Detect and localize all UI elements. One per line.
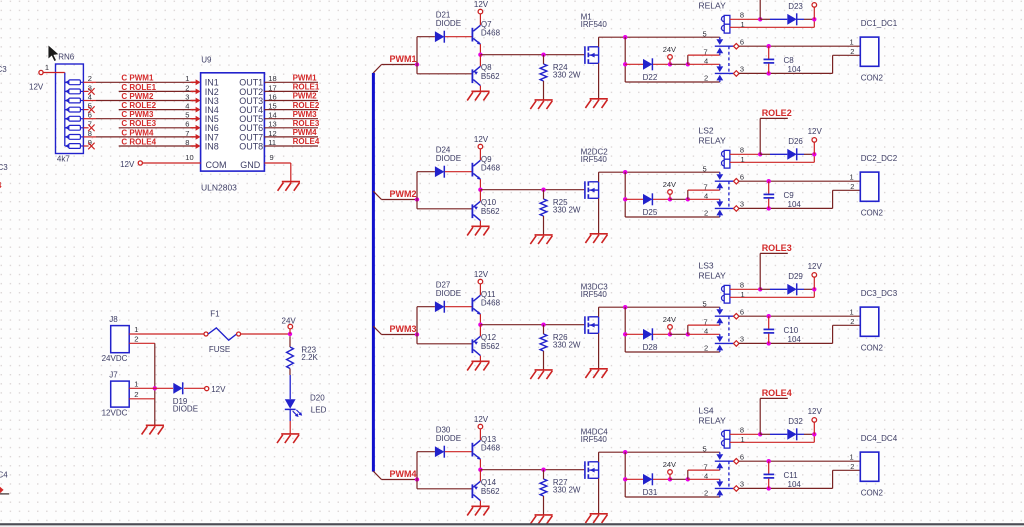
svg-text:Q13: Q13	[481, 435, 497, 444]
power 24V (relay contacts)	[663, 180, 676, 202]
svg-text:24V: 24V	[663, 45, 676, 54]
clipped red label fragment 2	[0, 487, 9, 494]
power 12V (relay coil)	[808, 127, 823, 155]
svg-text:1: 1	[45, 63, 49, 72]
svg-text:12V: 12V	[29, 83, 44, 92]
wire net C ROLE1 (RN6 pin 3 to U9 IN2)	[83, 83, 200, 95]
power 12V (Q13 collector)	[474, 415, 489, 440]
svg-text:5: 5	[703, 299, 707, 308]
svg-text:9: 9	[270, 153, 274, 162]
wire emitter node	[478, 314, 584, 327]
op-amp U9 ULN2803 body	[201, 56, 265, 193]
svg-text:3: 3	[185, 92, 189, 101]
svg-text:ROLE3: ROLE3	[293, 119, 320, 128]
svg-text:Q14: Q14	[481, 478, 497, 487]
svg-text:D468: D468	[481, 164, 501, 173]
svg-text:3: 3	[740, 65, 744, 74]
wire net PWM1 (U9 OUT1)	[264, 74, 318, 84]
svg-text:DIODE: DIODE	[436, 289, 461, 298]
svg-text:8: 8	[185, 138, 189, 147]
svg-text:1: 1	[134, 325, 138, 334]
svg-text:4: 4	[704, 327, 708, 336]
svg-text:RELAY: RELAY	[699, 270, 727, 280]
svg-text:4: 4	[704, 57, 708, 66]
wire drain rail	[599, 450, 720, 462]
svg-text:CON2: CON2	[861, 209, 884, 218]
ground (M3DC3)	[585, 369, 607, 378]
diode D26 (coil flyback)	[760, 137, 816, 160]
svg-text:1: 1	[741, 20, 745, 29]
svg-text:GND: GND	[240, 160, 260, 170]
svg-text:D26: D26	[788, 137, 803, 146]
wire fuse to 24V node	[241, 333, 290, 335]
svg-text:4: 4	[185, 102, 189, 111]
svg-text:FUSE: FUSE	[209, 345, 230, 354]
wire net PWM4 (U9 OUT7)	[264, 128, 318, 138]
relay mechanical link	[728, 46, 730, 73]
svg-text:PWM3: PWM3	[390, 324, 417, 334]
wire coil pin 1	[730, 434, 814, 444]
power 24V (relay contacts)	[663, 45, 676, 67]
svg-text:1: 1	[741, 435, 745, 444]
ground (M2DC2)	[585, 234, 607, 243]
svg-text:8: 8	[740, 426, 744, 435]
svg-text:D468: D468	[481, 29, 501, 38]
wire net C PWM1 (RN6 pin 2 to U9 IN1)	[83, 74, 200, 86]
ground (R26)	[530, 370, 552, 379]
svg-text:4: 4	[88, 92, 92, 101]
power 24V (relay contacts)	[663, 460, 676, 482]
svg-text:1: 1	[741, 290, 745, 299]
svg-text:C4: C4	[0, 470, 8, 479]
wire 24V node to contacts	[670, 55, 720, 66]
svg-text:1: 1	[185, 74, 189, 83]
svg-text:D468: D468	[481, 444, 501, 453]
svg-text:D468: D468	[481, 299, 501, 308]
RN6 pin 1 12V input	[29, 63, 65, 92]
wire net C PWM4 (RN6 pin 8 to U9 IN7)	[83, 128, 200, 140]
wire source to ground	[598, 198, 600, 234]
svg-text:RELAY: RELAY	[699, 0, 727, 10]
svg-text:7: 7	[704, 182, 708, 191]
svg-text:12VDC: 12VDC	[102, 409, 128, 418]
diode D22	[625, 58, 670, 82]
svg-text:D30: D30	[436, 425, 451, 434]
power 12V (relay coil)	[812, 3, 817, 20]
ground (M1)	[585, 99, 607, 108]
svg-text:PWM4: PWM4	[293, 128, 318, 137]
svg-text:PWM3: PWM3	[293, 110, 318, 119]
svg-text:LS4: LS4	[699, 406, 714, 416]
diode D28	[625, 328, 670, 352]
svg-text:1: 1	[850, 37, 854, 46]
wire drain rail	[599, 170, 720, 182]
power 24V (relay contacts)	[663, 315, 676, 337]
wire net ROLE3 (U9 OUT6)	[264, 119, 319, 129]
svg-text:12V: 12V	[120, 160, 135, 169]
svg-text:OUT8: OUT8	[239, 141, 263, 151]
svg-text:B562: B562	[481, 342, 500, 351]
relay contact pole 2	[704, 57, 744, 83]
svg-text:C3: C3	[0, 163, 8, 172]
connector J7 12VDC	[102, 371, 139, 418]
svg-text:2.2K: 2.2K	[301, 353, 318, 362]
ground (M4DC4)	[585, 514, 607, 523]
wire net C ROLE4 (RN6 pin 9 to U9 IN8)	[83, 137, 200, 149]
svg-text:C ROLE1: C ROLE1	[121, 83, 156, 92]
svg-text:2: 2	[704, 74, 708, 83]
wire source to ground	[598, 478, 600, 514]
wire J8.2 down	[129, 343, 155, 425]
wire coil pin 8	[730, 281, 763, 292]
LED D20	[285, 375, 327, 421]
svg-text:24VDC: 24VDC	[102, 354, 128, 363]
svg-text:C9: C9	[784, 191, 795, 200]
ground (J7/J8)	[142, 425, 164, 434]
svg-text:DIODE: DIODE	[173, 405, 198, 414]
svg-text:IN8: IN8	[205, 141, 219, 151]
svg-text:IRF540: IRF540	[581, 290, 608, 299]
svg-text:330 2W: 330 2W	[553, 71, 581, 80]
diode D32 (coil flyback)	[760, 417, 816, 440]
wire drain drop	[623, 37, 720, 82]
wire net C ROLE2 (RN6 pin 5 to U9 IN4)	[83, 101, 200, 113]
svg-text:C8: C8	[784, 56, 795, 65]
wire net ROLE2 (U9 OUT4)	[264, 101, 319, 111]
wire coil pin 8	[730, 11, 763, 22]
wire drain rail	[599, 35, 720, 47]
diode D29 (coil flyback)	[760, 272, 816, 295]
connector DC3_DC3 CON2	[850, 289, 898, 352]
svg-text:Q10: Q10	[481, 198, 497, 207]
svg-text:6: 6	[740, 172, 744, 181]
svg-text:12V: 12V	[808, 262, 823, 271]
svg-text:16: 16	[268, 92, 276, 101]
resistor network RN6	[56, 53, 84, 164]
transistor M1 IRF540 (MOSFET)	[581, 13, 608, 64]
svg-text:1: 1	[850, 452, 854, 461]
svg-text:12V: 12V	[474, 0, 489, 9]
svg-text:24V: 24V	[663, 315, 676, 324]
wire LED to ground	[289, 421, 291, 434]
relay LS3 coil	[699, 261, 730, 304]
power 12V (Q7 collector)	[474, 0, 489, 25]
svg-text:ROLE2: ROLE2	[293, 101, 320, 110]
wire J7.2	[129, 398, 155, 400]
svg-text:C ROLE4: C ROLE4	[121, 137, 156, 146]
wire net PWM3 (U9 OUT5)	[264, 110, 318, 120]
ground (U9)	[278, 182, 300, 191]
ground (Q10)	[467, 226, 489, 235]
power 12V (Q11 collector)	[474, 270, 489, 295]
diode D19	[173, 382, 205, 413]
relay contact pole 2	[704, 327, 744, 353]
transistor Q14 B562 (PNP)	[472, 470, 501, 507]
svg-text:Q7: Q7	[481, 20, 492, 29]
svg-text:LS2: LS2	[699, 126, 714, 136]
svg-text:104: 104	[788, 200, 802, 209]
svg-text:PWM2: PWM2	[293, 92, 318, 101]
svg-text:2: 2	[850, 462, 854, 471]
svg-text:330 2W: 330 2W	[553, 486, 581, 495]
power 12V (relay coil)	[808, 262, 823, 290]
svg-text:C ROLE3: C ROLE3	[121, 119, 156, 128]
svg-text:PWM4: PWM4	[390, 469, 417, 479]
wire J8.1 to fuse	[129, 333, 204, 335]
relay contact pole 1	[703, 29, 745, 56]
svg-text:B562: B562	[481, 487, 500, 496]
svg-text:24V: 24V	[282, 316, 297, 325]
svg-text:C3: C3	[0, 65, 7, 74]
svg-text:J7: J7	[109, 371, 118, 380]
svg-text:Q8: Q8	[481, 63, 492, 72]
wire net PWM3 from bus	[373, 307, 471, 344]
ground (Q8)	[467, 91, 489, 100]
svg-text:C ROLE2: C ROLE2	[121, 101, 156, 110]
svg-text:5: 5	[703, 164, 707, 173]
transistor Q11 D468 (NPN)	[472, 290, 501, 315]
svg-text:10: 10	[185, 153, 193, 162]
svg-text:14: 14	[268, 111, 276, 120]
wire coil pin 8	[730, 146, 763, 157]
svg-text:D22: D22	[643, 73, 658, 82]
svg-text:D27: D27	[436, 280, 451, 289]
diode D30	[435, 425, 472, 457]
relay mechanical link	[728, 316, 730, 343]
connector J8 24VDC	[102, 315, 139, 363]
svg-text:J8: J8	[109, 315, 118, 324]
wire source to ground	[598, 333, 600, 369]
wire net ROLE4 to coil	[760, 388, 792, 434]
power 24V (LED branch)	[282, 316, 297, 336]
svg-text:D25: D25	[643, 208, 658, 217]
transistor M3DC3 IRF540 (MOSFET)	[581, 283, 609, 334]
svg-text:24V: 24V	[663, 180, 676, 189]
resistor R26 330 2W	[540, 323, 581, 370]
svg-text:12: 12	[268, 129, 276, 138]
svg-text:2: 2	[704, 209, 708, 218]
svg-text:12V: 12V	[474, 270, 489, 279]
wire coil pin 8	[730, 426, 763, 437]
svg-text:IRF540: IRF540	[581, 435, 608, 444]
wire net C ROLE3 (RN6 pin 7 to U9 IN6)	[83, 119, 200, 131]
transistor Q12 B562 (PNP)	[472, 325, 501, 362]
wire coil pin 1	[730, 19, 814, 29]
ground (Q12)	[467, 361, 489, 370]
svg-text:DC1_DC1: DC1_DC1	[861, 19, 898, 28]
svg-text:CON2: CON2	[861, 489, 884, 498]
svg-text:D24: D24	[436, 145, 451, 154]
capacitor C9 104	[764, 181, 802, 209]
relay LS4 coil	[699, 406, 730, 449]
junction J7.1 node	[153, 386, 157, 390]
fuse F1	[204, 309, 241, 354]
svg-text:B562: B562	[481, 72, 500, 81]
wire drain rail	[599, 305, 720, 317]
svg-text:ULN2803: ULN2803	[201, 182, 237, 192]
transistor M2DC2 IRF540 (MOSFET)	[581, 148, 609, 199]
svg-text:330 2W: 330 2W	[553, 206, 581, 215]
svg-text:C PWM3: C PWM3	[121, 110, 154, 119]
svg-text:1: 1	[134, 380, 138, 389]
capacitor C11 104	[764, 461, 802, 489]
wire drain drop	[623, 172, 720, 217]
relay contact pole 1	[703, 444, 745, 471]
svg-text:D28: D28	[643, 343, 658, 352]
svg-text:C PWM2: C PWM2	[121, 92, 154, 101]
resistor R27 330 2W	[540, 468, 581, 515]
svg-text:8: 8	[740, 11, 744, 20]
svg-text:7: 7	[704, 317, 708, 326]
svg-text:5: 5	[185, 111, 189, 120]
wire emitter node	[478, 179, 584, 192]
svg-text:F1: F1	[210, 309, 220, 318]
wire source to ground	[598, 63, 600, 99]
svg-text:ROLE4: ROLE4	[293, 137, 320, 146]
svg-text:8: 8	[88, 129, 92, 138]
resistor R25 330 2W	[540, 188, 581, 235]
wire contact 6 to connector	[739, 314, 860, 318]
svg-text:104: 104	[788, 480, 802, 489]
relay mechanical link	[728, 181, 730, 208]
wire contact 3 to connector	[739, 470, 860, 490]
svg-text:D23: D23	[788, 2, 803, 11]
svg-text:18: 18	[268, 74, 276, 83]
svg-text:C PWM4: C PWM4	[121, 128, 154, 137]
svg-text:11: 11	[268, 138, 276, 147]
power 12V (D19 output)	[205, 385, 226, 394]
power 12V (relay coil)	[808, 407, 823, 435]
svg-text:104: 104	[788, 335, 802, 344]
connector DC1_DC1 CON2	[850, 19, 898, 82]
wire contact 3 to connector	[739, 325, 860, 345]
svg-text:PWM2: PWM2	[390, 189, 417, 199]
wire net C PWM3 (RN6 pin 6 to U9 IN5)	[83, 110, 200, 122]
svg-text:7: 7	[704, 47, 708, 56]
svg-text:RELAY: RELAY	[699, 415, 727, 425]
svg-text:ROLE2: ROLE2	[762, 108, 792, 118]
U9 COM pin 12V supply	[120, 153, 201, 169]
svg-text:D21: D21	[436, 10, 451, 19]
svg-text:104: 104	[788, 65, 802, 74]
wire coil pin 1	[730, 154, 814, 164]
svg-text:DIODE: DIODE	[436, 154, 461, 163]
transistor Q13 D468 (NPN)	[472, 435, 501, 460]
svg-text:COM: COM	[206, 160, 227, 170]
svg-text:D31: D31	[643, 488, 658, 497]
wire 24V node to contacts	[670, 325, 720, 336]
svg-text:CON2: CON2	[861, 74, 884, 83]
svg-text:2: 2	[185, 83, 189, 92]
svg-text:12V: 12V	[808, 407, 823, 416]
svg-text:12V: 12V	[808, 127, 823, 136]
diode D24	[435, 145, 472, 177]
svg-text:Q12: Q12	[481, 333, 497, 342]
svg-text:2: 2	[850, 182, 854, 191]
transistor M4DC4 IRF540 (MOSFET)	[581, 428, 609, 479]
svg-text:3: 3	[740, 200, 744, 209]
relay contact pole 2	[704, 192, 744, 218]
svg-text:D29: D29	[788, 272, 803, 281]
wire net ROLE1 to coil (clipped)	[759, 0, 761, 19]
svg-text:IRF540: IRF540	[581, 155, 608, 164]
svg-text:330 2W: 330 2W	[553, 341, 581, 350]
svg-text:2: 2	[134, 390, 138, 399]
svg-text:DC3_DC3: DC3_DC3	[861, 289, 898, 298]
svg-text:U9: U9	[201, 56, 212, 65]
svg-text:12V: 12V	[211, 385, 226, 394]
svg-text:6: 6	[185, 120, 189, 129]
diode D21	[435, 10, 472, 42]
svg-text:8: 8	[740, 281, 744, 290]
svg-text:17: 17	[268, 83, 276, 92]
svg-text:ROLE4: ROLE4	[762, 388, 792, 398]
wire drain drop	[623, 452, 720, 497]
svg-text:15: 15	[268, 102, 276, 111]
ground (R25)	[530, 235, 552, 244]
svg-text:IRF540: IRF540	[581, 20, 608, 29]
resistor R23 2.2K	[287, 336, 319, 375]
relay contact pole 1	[703, 299, 745, 326]
U9 GND pin wire	[264, 153, 290, 181]
diode D27	[435, 280, 472, 312]
svg-text:5: 5	[703, 29, 707, 38]
transistor Q10 B562 (PNP)	[472, 190, 501, 227]
capacitor C8 104	[764, 46, 802, 74]
svg-text:CON2: CON2	[861, 344, 884, 353]
wire 24V node to contacts	[670, 470, 720, 481]
svg-text:13: 13	[268, 120, 276, 129]
transistor Q7 D468 (NPN)	[472, 20, 501, 45]
svg-text:2: 2	[850, 317, 854, 326]
svg-text:RELAY: RELAY	[699, 135, 727, 145]
svg-text:4k7: 4k7	[57, 155, 70, 164]
svg-text:2: 2	[704, 489, 708, 498]
svg-text:B562: B562	[481, 207, 500, 216]
wire net ROLE3 to coil	[760, 243, 792, 289]
svg-text:6: 6	[740, 307, 744, 316]
relay contact pole 1	[703, 164, 745, 191]
wire net ROLE4 (U9 OUT8)	[264, 137, 319, 147]
svg-text:8: 8	[740, 146, 744, 155]
diode D31	[625, 473, 670, 497]
wire net PWM1 from bus	[373, 37, 471, 74]
svg-text:ROLE1: ROLE1	[293, 83, 320, 92]
svg-text:6: 6	[740, 37, 744, 46]
svg-text:Q9: Q9	[481, 155, 492, 164]
svg-text:RN6: RN6	[58, 53, 75, 62]
svg-text:7: 7	[185, 129, 189, 138]
relay mechanical link	[728, 461, 730, 488]
svg-text:DIODE: DIODE	[436, 434, 461, 443]
svg-text:12V: 12V	[474, 135, 489, 144]
transistor Q8 B562 (PNP)	[472, 55, 501, 92]
connector DC2_DC2 CON2	[850, 154, 898, 217]
wire emitter node	[478, 44, 584, 57]
wire net PWM2 from bus	[373, 172, 471, 209]
relay LS2 coil	[699, 126, 730, 169]
connector DC4_DC4 CON2	[850, 434, 898, 497]
wire drain drop	[623, 307, 720, 352]
ground (Q14)	[467, 506, 489, 515]
svg-text:C11: C11	[784, 471, 799, 480]
svg-text:2: 2	[88, 74, 92, 83]
wire 24V node to contacts	[670, 190, 720, 201]
svg-text:C PWM1: C PWM1	[121, 74, 154, 83]
svg-text:3: 3	[740, 480, 744, 489]
svg-text:D32: D32	[788, 417, 803, 426]
svg-text:2: 2	[704, 344, 708, 353]
